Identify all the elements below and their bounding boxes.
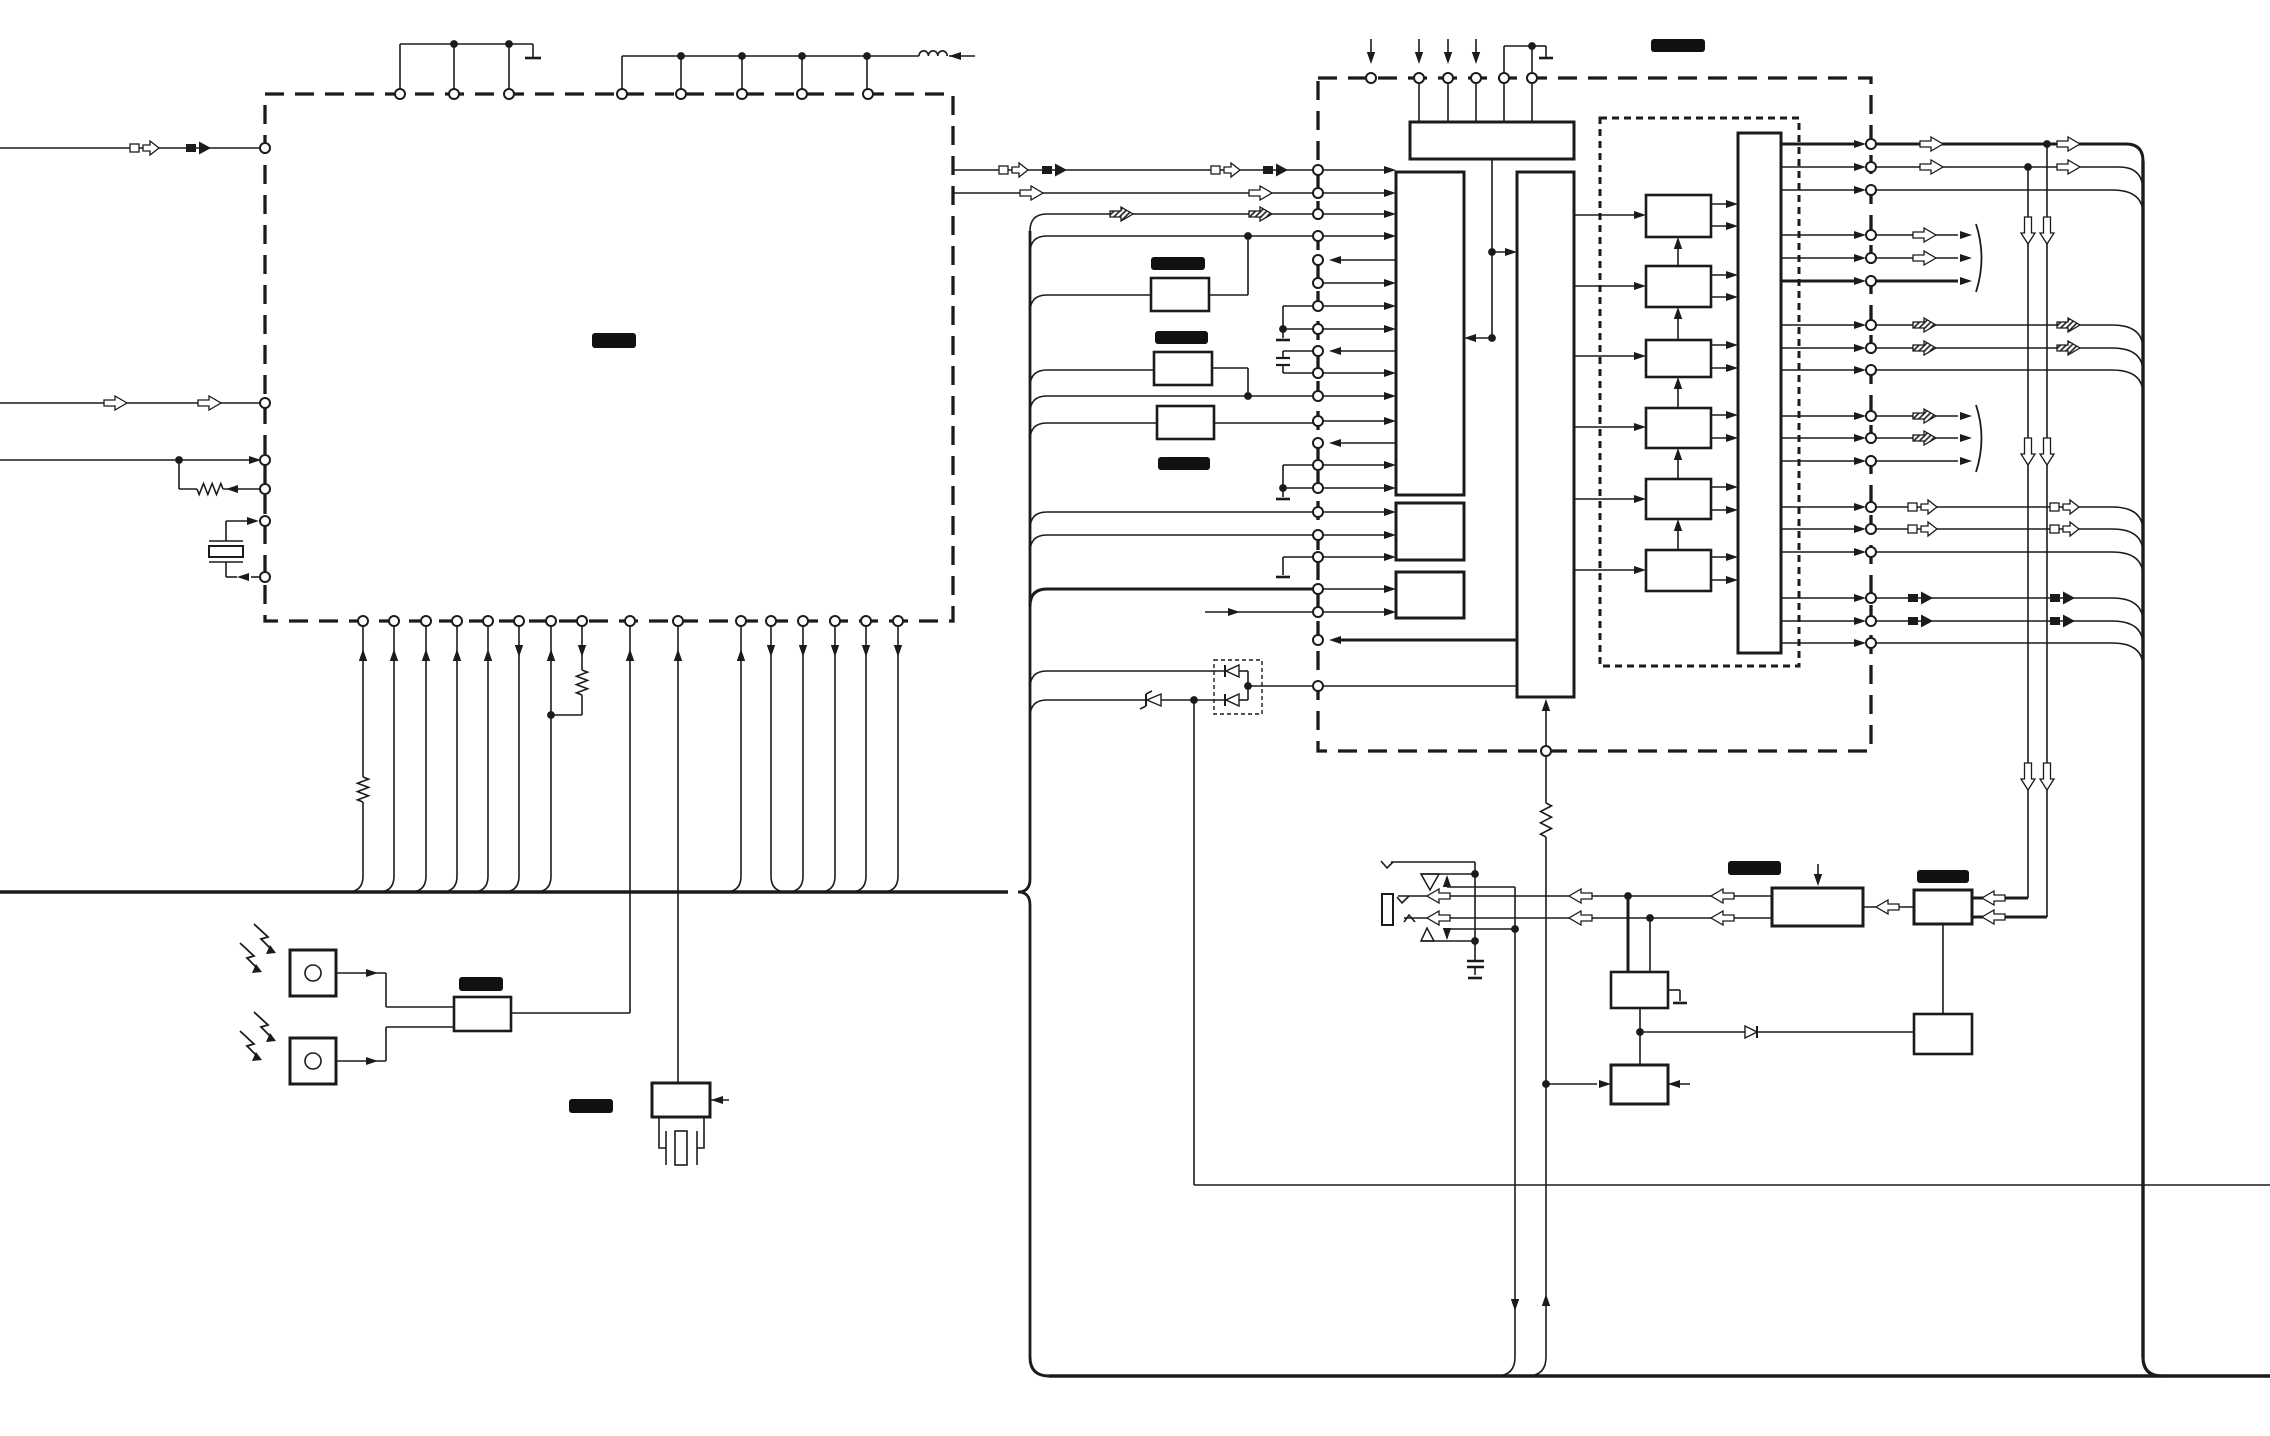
junction bbox=[1528, 42, 1536, 50]
pin bbox=[861, 616, 871, 626]
wire stage in bbox=[1574, 569, 1640, 571]
pin bbox=[1866, 502, 1876, 512]
wire mute net in box bbox=[1545, 703, 1547, 745]
IR amp U11 bbox=[454, 997, 511, 1031]
diode pair dashed box bbox=[1214, 660, 1262, 714]
junction bbox=[1244, 392, 1252, 400]
wire stage out b bbox=[1711, 437, 1732, 439]
inductor L1 bbox=[919, 51, 947, 56]
wire bbox=[1649, 918, 1651, 972]
wire stage out a bbox=[1711, 486, 1732, 488]
IC U1 label (redacted) bbox=[592, 333, 636, 348]
sub block U2d bbox=[1396, 503, 1464, 560]
bus branch to D2 bbox=[1030, 671, 1047, 688]
pin bbox=[1866, 593, 1876, 603]
wire latch out bbox=[1781, 257, 1860, 259]
wire X1 to pin bbox=[226, 520, 252, 522]
net VDD-B wiring bbox=[622, 55, 919, 57]
wire out T6c bbox=[1876, 642, 2112, 644]
hatched arrow bbox=[1110, 207, 1133, 221]
IR rays bbox=[254, 1012, 273, 1039]
pin bbox=[358, 616, 368, 626]
diode D1 bbox=[1745, 1026, 1757, 1038]
wire bus DATA row2 bbox=[953, 192, 1318, 194]
wire latch out bbox=[1781, 642, 1860, 644]
pin bbox=[1866, 365, 1876, 375]
bus branch to D4 bbox=[1030, 700, 1047, 717]
junction bbox=[547, 711, 555, 719]
pin bbox=[260, 398, 270, 408]
pin bbox=[737, 89, 747, 99]
block E label (redacted) bbox=[1917, 870, 1969, 883]
wire to bus bbox=[834, 627, 836, 876]
wire out T6a bbox=[1876, 597, 2112, 599]
wire latch out bbox=[1781, 437, 1860, 439]
junction bbox=[1190, 696, 1198, 704]
ground bbox=[1282, 329, 1284, 338]
wire P9 seg bbox=[1283, 350, 1318, 352]
pin bbox=[797, 89, 807, 99]
junction bbox=[1279, 325, 1287, 333]
wire stage out b bbox=[1711, 367, 1732, 369]
wire pin to core bbox=[1324, 372, 1390, 374]
pin bbox=[830, 616, 840, 626]
wire latch out bbox=[1781, 551, 1860, 553]
bus split curve down bbox=[1018, 892, 1030, 905]
wire sw base bbox=[1421, 940, 1475, 942]
wire stage out b bbox=[1711, 296, 1732, 298]
block D label (redacted) bbox=[1728, 861, 1781, 875]
output latch U4 bbox=[1738, 133, 1781, 653]
bus merge curve bbox=[1527, 1357, 1546, 1376]
wire to bus bbox=[740, 627, 742, 876]
junction bbox=[505, 40, 513, 48]
DSP IC U10 dashed body bbox=[1318, 78, 1871, 751]
block S3 bbox=[1157, 406, 1214, 439]
pin bbox=[617, 89, 627, 99]
flow arrow bbox=[2021, 763, 2035, 790]
wire to E in1 bbox=[1972, 897, 2028, 900]
wire to IR amp bbox=[629, 627, 631, 1013]
pin bbox=[1866, 139, 1876, 149]
wire pin to sub2 bbox=[1324, 611, 1390, 613]
DAC stage block B1 bbox=[1646, 195, 1711, 237]
wire L2row bbox=[0, 402, 265, 404]
left main IC U1 dashed body bbox=[265, 94, 953, 621]
DAC section dotted box bbox=[1600, 118, 1799, 666]
DAC stage block B3 bbox=[1646, 340, 1711, 377]
wire pin to sub2 bbox=[1324, 588, 1390, 590]
wire bbox=[1475, 84, 1477, 122]
core block U2c bbox=[1517, 172, 1574, 697]
wire X1 return bbox=[251, 576, 265, 578]
pin bbox=[673, 616, 683, 626]
wire bbox=[1503, 84, 1505, 122]
wire PD2 out bbox=[336, 1060, 386, 1062]
block U8 bbox=[1611, 972, 1668, 1008]
wire latch out bbox=[1781, 597, 1860, 599]
junction bbox=[1646, 914, 1654, 922]
pin bbox=[1866, 411, 1876, 421]
junction bbox=[1636, 1028, 1644, 1036]
pin bbox=[1313, 346, 1323, 356]
audio bus right vertical bbox=[2141, 161, 2144, 1357]
wire supply in bbox=[1418, 39, 1420, 52]
junction bbox=[1471, 937, 1479, 945]
bus bundle vertical upper bbox=[1029, 231, 1032, 879]
net VDD-A wiring bbox=[400, 43, 533, 45]
pin bbox=[1313, 460, 1323, 470]
wire out T6b bbox=[1876, 620, 2112, 622]
wire P14 loop bbox=[1283, 464, 1318, 466]
wire D-E bbox=[1863, 906, 1914, 908]
register block U2a bbox=[1410, 122, 1574, 159]
pin bbox=[1313, 209, 1323, 219]
wire P18 gnd loop bbox=[1283, 556, 1318, 558]
DAC stage block B2 bbox=[1646, 266, 1711, 307]
bus ribbon horizontal bbox=[0, 890, 1008, 893]
jack switch triangle bbox=[1421, 928, 1434, 941]
wire core out bbox=[1338, 350, 1396, 352]
pin bbox=[1866, 320, 1876, 330]
wire latch out bbox=[1781, 189, 1860, 191]
bus split curve up bbox=[1018, 879, 1030, 892]
pin bbox=[798, 616, 808, 626]
wire pin to sub bbox=[1324, 534, 1390, 536]
pin bbox=[1313, 324, 1323, 334]
function switch SW1 body bbox=[652, 1083, 710, 1117]
pin bbox=[1313, 231, 1323, 241]
wire latch out bbox=[1781, 166, 1860, 168]
headphone jack J1 sleeve bbox=[1382, 894, 1393, 925]
wire sw top bbox=[1421, 873, 1475, 875]
pin bbox=[676, 89, 686, 99]
wire out T1c bbox=[1876, 189, 2112, 191]
wire bus DATA row1 bbox=[953, 169, 1318, 171]
wire out T1b bbox=[1876, 166, 2119, 168]
wire to bus bbox=[487, 627, 489, 876]
wire stage in bbox=[1574, 426, 1640, 428]
wire diode join bbox=[1247, 671, 1249, 700]
group brace bbox=[1976, 405, 1982, 472]
wire out T1a bbox=[1876, 143, 2126, 146]
wire pin to core bbox=[1324, 213, 1390, 215]
pin bbox=[1866, 524, 1876, 534]
jack wire bbox=[1391, 861, 1475, 863]
pin bbox=[1313, 635, 1323, 645]
wire supply in bbox=[1447, 39, 1449, 52]
wire stub bbox=[1668, 1083, 1690, 1085]
pin bbox=[1866, 456, 1876, 466]
wire out T3c bbox=[1876, 369, 2112, 371]
wire stage chain bbox=[1677, 383, 1679, 408]
wire to bus bbox=[456, 627, 458, 876]
DAC stage block B4 bbox=[1646, 408, 1711, 448]
pin bbox=[1866, 638, 1876, 648]
wire P10 seg bbox=[1283, 372, 1318, 374]
pin bbox=[1866, 433, 1876, 443]
wire latch out bbox=[1781, 460, 1860, 462]
junction bbox=[863, 52, 871, 60]
crystal X1 bbox=[225, 521, 227, 541]
pin bbox=[421, 616, 431, 626]
pin bbox=[1313, 552, 1323, 562]
pin bbox=[1366, 73, 1376, 83]
wire bbox=[1161, 699, 1225, 701]
pin bbox=[863, 89, 873, 99]
DAC stage block B6 bbox=[1646, 550, 1711, 591]
core block U2b bbox=[1396, 172, 1464, 495]
wire bbox=[1531, 84, 1533, 122]
wire into L1 bbox=[949, 55, 975, 57]
block S2 label (redacted) bbox=[1155, 331, 1208, 344]
junction bbox=[2043, 140, 2051, 148]
pin bbox=[1866, 276, 1876, 286]
pin bbox=[1866, 343, 1876, 353]
wire stage chain bbox=[1677, 243, 1679, 266]
wire L4row with resistor R1 bbox=[178, 460, 180, 489]
resistor R4 bbox=[1545, 837, 1547, 1357]
wire pin to core bbox=[1324, 464, 1390, 466]
net to PH line bbox=[1193, 700, 1195, 1185]
wire out T5a bbox=[1876, 506, 2112, 508]
flow arrow bbox=[2021, 438, 2035, 465]
wire serial-in L1row bbox=[0, 147, 265, 149]
wire S1 out bbox=[1209, 294, 1248, 296]
wire out T5c bbox=[1876, 551, 2112, 553]
net osc pins bbox=[1503, 46, 1505, 74]
pin bbox=[504, 89, 514, 99]
wire with diode D1 bbox=[1640, 1031, 1745, 1033]
pin bbox=[395, 89, 405, 99]
pin bbox=[1866, 185, 1876, 195]
wire stage out a bbox=[1711, 344, 1732, 346]
pin bbox=[389, 616, 399, 626]
bus corner bbox=[2126, 144, 2143, 161]
wire pin-R2 with resistor R2 bbox=[581, 627, 583, 670]
wire pin to core bbox=[1324, 395, 1390, 397]
wire pin to core bbox=[1324, 192, 1390, 194]
sub block U2e bbox=[1396, 572, 1464, 618]
wire latch out bbox=[1781, 280, 1860, 283]
bus branch to P4 bbox=[1030, 236, 1047, 253]
pin bbox=[1471, 73, 1481, 83]
junction bbox=[1511, 925, 1519, 933]
pin bbox=[736, 616, 746, 626]
wire stage in bbox=[1574, 355, 1640, 357]
wire bold out P21 bbox=[1338, 639, 1517, 642]
wire stage out a bbox=[1711, 414, 1732, 416]
wire bbox=[1470, 337, 1492, 339]
pin bbox=[260, 455, 270, 465]
hatched arrow bbox=[1249, 207, 1272, 221]
pin bbox=[1313, 165, 1323, 175]
flow arrow bbox=[2021, 217, 2035, 244]
wire out T2b bbox=[1876, 257, 1958, 259]
wire S3 out bbox=[1214, 422, 1318, 424]
wire stage out a bbox=[1711, 274, 1732, 276]
wire pin to core bbox=[1324, 282, 1390, 284]
junction bbox=[1244, 232, 1252, 240]
headphone amp U5 bbox=[1772, 888, 1863, 926]
pin bbox=[1414, 73, 1424, 83]
wire to bus bbox=[518, 627, 520, 876]
wire stage out b bbox=[1711, 225, 1732, 227]
wire supply in bbox=[1475, 39, 1477, 52]
wire to E in2 bbox=[1972, 916, 2047, 919]
jack switch triangle bbox=[1421, 874, 1439, 890]
wire core out bbox=[1338, 442, 1396, 444]
wire bbox=[1447, 84, 1449, 122]
headphone line R bbox=[1404, 917, 1772, 919]
pin bbox=[260, 516, 270, 526]
pin bbox=[893, 616, 903, 626]
IR rays bbox=[254, 924, 273, 951]
bus merge curve bbox=[1496, 1357, 1515, 1376]
wire E-F bbox=[1942, 924, 1944, 1014]
wire pin to sub bbox=[1324, 511, 1390, 513]
SW1 plunger bbox=[659, 1117, 666, 1148]
pin bbox=[1313, 681, 1323, 691]
pin bbox=[1866, 547, 1876, 557]
bus bottom curve bbox=[1030, 1357, 1049, 1376]
wire bbox=[1545, 1083, 1597, 1085]
pin bbox=[1313, 507, 1323, 517]
capacitor C1 bbox=[1467, 960, 1484, 963]
ground bbox=[1668, 989, 1680, 991]
diode D3 bbox=[1224, 694, 1226, 706]
junction bbox=[175, 456, 183, 464]
wire out T5b bbox=[1876, 528, 2112, 530]
wire latch out bbox=[1781, 415, 1860, 417]
wire pin to core bbox=[1324, 235, 1390, 237]
wire stage in bbox=[1574, 285, 1640, 287]
pin bbox=[1499, 73, 1509, 83]
wire U8 down bbox=[1639, 1008, 1641, 1065]
junction bbox=[738, 52, 746, 60]
wire register to cores bbox=[1491, 159, 1493, 338]
wire stage in bbox=[1574, 498, 1640, 500]
bus branch to P11 bbox=[1030, 396, 1047, 413]
wire latch out bbox=[1781, 506, 1860, 508]
flow arrow bbox=[2040, 438, 2054, 465]
wire PD1 out bbox=[336, 972, 386, 974]
block S3 label (redacted) bbox=[1158, 457, 1210, 470]
jack contact 3 bbox=[1404, 915, 1415, 922]
wire core out bbox=[1338, 259, 1396, 261]
wire stage in bbox=[1574, 214, 1640, 216]
pin bbox=[260, 572, 270, 582]
diode D4 (zener) bbox=[1147, 694, 1161, 706]
bus branch to S1 bbox=[1030, 295, 1047, 312]
wire to bus bbox=[393, 627, 395, 876]
wire bbox=[1492, 251, 1511, 253]
ground bbox=[525, 57, 541, 60]
wire bbox=[1418, 84, 1420, 122]
junction bbox=[677, 52, 685, 60]
wire P8 seg bbox=[1283, 328, 1318, 330]
junction bbox=[1624, 892, 1632, 900]
wire stage chain bbox=[1677, 313, 1679, 340]
wire to function switch bbox=[677, 627, 679, 1083]
pin bbox=[1313, 584, 1323, 594]
jack tip contact bbox=[1381, 861, 1393, 868]
pin bbox=[514, 616, 524, 626]
pin bbox=[449, 89, 459, 99]
wire IR out bbox=[511, 1012, 630, 1014]
wire stage out b bbox=[1711, 509, 1732, 511]
wire out T4c bbox=[1876, 460, 1958, 462]
wire out T2c bold bbox=[1876, 280, 1958, 283]
pin bbox=[260, 143, 270, 153]
wire to P22 bbox=[1248, 685, 1318, 687]
wire latch out bbox=[1781, 324, 1860, 326]
switch SW1 label (redacted) bbox=[569, 1099, 613, 1113]
headphone line L bbox=[1398, 895, 1772, 897]
wire bbox=[1474, 874, 1476, 961]
wire to bus bbox=[550, 627, 552, 876]
wire S2 out bbox=[1212, 367, 1248, 369]
pin bbox=[1866, 616, 1876, 626]
pin bbox=[1313, 188, 1323, 198]
pin bbox=[1541, 746, 1551, 756]
bus bundle vertical lower bbox=[1029, 905, 1032, 1357]
net LOUT vertical bbox=[2027, 167, 2029, 898]
pin bbox=[452, 616, 462, 626]
pin bbox=[1866, 230, 1876, 240]
wire stage out a bbox=[1711, 556, 1732, 558]
wire bbox=[1627, 896, 1630, 972]
pin bbox=[1866, 162, 1876, 172]
bus branch to S2 bbox=[1030, 370, 1047, 387]
pin bbox=[577, 616, 587, 626]
bus branch to S3 bbox=[1030, 423, 1047, 440]
junction bbox=[1488, 334, 1496, 342]
photo sensor PD1 bbox=[290, 950, 336, 996]
wire latch out bbox=[1781, 620, 1860, 622]
bus ribbon bottom bbox=[1049, 1374, 2270, 1377]
pin bbox=[1313, 368, 1323, 378]
junction bbox=[1244, 682, 1252, 690]
pin bbox=[1527, 73, 1537, 83]
ground bbox=[1282, 488, 1284, 497]
junction bbox=[1279, 484, 1287, 492]
junction bbox=[1471, 870, 1479, 878]
wire to bus bbox=[362, 627, 364, 777]
wire stage chain bbox=[1677, 454, 1679, 479]
pin bbox=[1313, 530, 1323, 540]
pin bbox=[1313, 416, 1323, 426]
junction bbox=[798, 52, 806, 60]
wire L3row bbox=[0, 459, 250, 461]
detect net vertical bbox=[1514, 887, 1516, 1357]
wire P22 in bbox=[1324, 685, 1517, 687]
wire pin to core bbox=[1324, 420, 1390, 422]
net ROUT vertical bbox=[2046, 144, 2048, 917]
wire stage out a bbox=[1711, 203, 1732, 205]
bus branch to P3 bbox=[1030, 214, 1047, 231]
junction bbox=[1488, 248, 1496, 256]
pin bbox=[625, 616, 635, 626]
pin bbox=[1313, 301, 1323, 311]
driver U6 bbox=[1914, 890, 1972, 924]
wire latch out bbox=[1781, 143, 1860, 146]
wire stage out b bbox=[1711, 579, 1732, 581]
capacitor C2 bbox=[1282, 351, 1284, 358]
wire latch out bbox=[1781, 369, 1860, 371]
pin bbox=[1866, 253, 1876, 263]
mute block U9 bbox=[1611, 1065, 1668, 1104]
